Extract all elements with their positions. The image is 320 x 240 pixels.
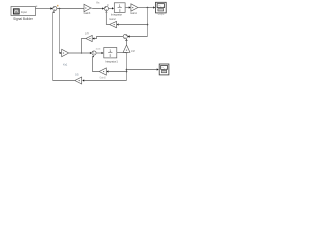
svg-text:Gain3: Gain3 <box>84 12 91 15</box>
wire: gain G5 up to sum S3 <box>126 40 128 45</box>
sum S2 sign marks <box>105 7 106 8</box>
wire: Sum1 out <box>57 8 84 10</box>
svg-text:Integrator1: Integrator1 <box>105 59 118 63</box>
scope1 block <box>156 2 167 13</box>
svg-text:Input: Input <box>21 10 27 14</box>
wire: integrator I1 to gain G2 <box>125 7 129 9</box>
sum S1 sign marks <box>53 7 54 8</box>
svg-text:Integrator: Integrator <box>111 13 122 17</box>
wire: integrator I2 out to node <box>117 52 127 54</box>
gain G1 (triangle) <box>84 4 91 11</box>
gain G2 (triangle) <box>131 4 138 11</box>
wire: sum S2 to integrator I1 <box>109 8 113 10</box>
signal builder port mark <box>36 6 37 7</box>
wire: gain G6 out to sum S4 bottom <box>93 56 100 71</box>
svg-text:dz/dt: dz/dt <box>96 48 101 51</box>
scope2 block <box>159 64 169 75</box>
gain GA (triangle right) <box>62 49 69 56</box>
wire: sum S3 out left with jog down <box>94 37 123 39</box>
svg-text:Scope: Scope <box>158 13 165 16</box>
gain G6 (left triangle) <box>99 68 106 75</box>
wire: gain G7 out up to sum S1 bottom <box>53 80 75 82</box>
wire: bottom feedback <box>84 80 127 82</box>
sum S1 bottom input arrow <box>53 11 55 13</box>
signal builder icon <box>13 9 19 14</box>
sum S3 sign marks <box>126 35 127 36</box>
node: branch after sum1 <box>59 8 61 10</box>
orange mark near sum S1 <box>57 5 58 7</box>
node: junction on gain A output <box>81 52 83 54</box>
wire: feedback level1 to gain G3 <box>119 24 148 26</box>
svg-text:s: s <box>109 54 111 58</box>
gain G7 (left triangle) <box>75 77 82 84</box>
svg-text:Gain5: Gain5 <box>100 77 107 79</box>
wire: gain GA out to sum S4 <box>69 52 91 54</box>
wire: vertical net <box>126 53 128 81</box>
svg-text:Gain2: Gain2 <box>109 18 116 21</box>
wire: sum S4 to integrator I2 <box>96 52 101 54</box>
sum S2 bottom input arrow <box>105 11 107 13</box>
sum S3 <box>123 34 127 38</box>
svg-text:s: s <box>119 9 121 13</box>
svg-text:Signal Builder: Signal Builder <box>13 17 34 21</box>
sum S4 <box>92 51 96 55</box>
gain G5 (up triangle) <box>123 45 130 52</box>
wire: gain G2 to scope1 <box>138 7 153 9</box>
gain G3 (left triangle) <box>110 21 117 27</box>
wire: to gain G6 <box>109 71 127 73</box>
node: scope2 branch <box>126 69 128 71</box>
wire: feedback to sum S3 right <box>130 36 148 38</box>
wire: to scope2 <box>127 69 157 71</box>
sum S2 <box>104 6 108 10</box>
integrator I2 <box>104 48 117 58</box>
sum S4 sign marks <box>93 51 94 52</box>
sum S3 bottom input arrow <box>125 39 127 41</box>
svg-text:Ks1: Ks1 <box>63 64 68 67</box>
sum S1 <box>53 6 57 10</box>
sum S4 bottom input arrow <box>92 55 94 57</box>
wire: gain G3 to sum S2 bottom <box>106 11 109 24</box>
wire: branch down to gain KA <box>59 9 61 54</box>
integrator I1 <box>114 3 125 13</box>
node: output branch <box>147 7 149 9</box>
svg-text:Gain1: Gain1 <box>130 12 137 15</box>
gain G4 (left triangle) <box>86 35 92 41</box>
wire: gain G1 to sum S2 <box>91 7 103 10</box>
signal builder block <box>11 7 36 16</box>
svg-text:1/M: 1/M <box>131 51 135 53</box>
wire: feedback vertical from output node <box>147 8 149 37</box>
node: state node <box>126 52 128 54</box>
node: gain G6 branch <box>126 71 128 73</box>
wire: Signal Builder to Sum1 <box>36 8 52 10</box>
svg-text:1/Tf: 1/Tf <box>85 32 89 35</box>
node: feedback branch <box>147 24 149 26</box>
wire: gain G4 out down to junction <box>82 39 86 54</box>
